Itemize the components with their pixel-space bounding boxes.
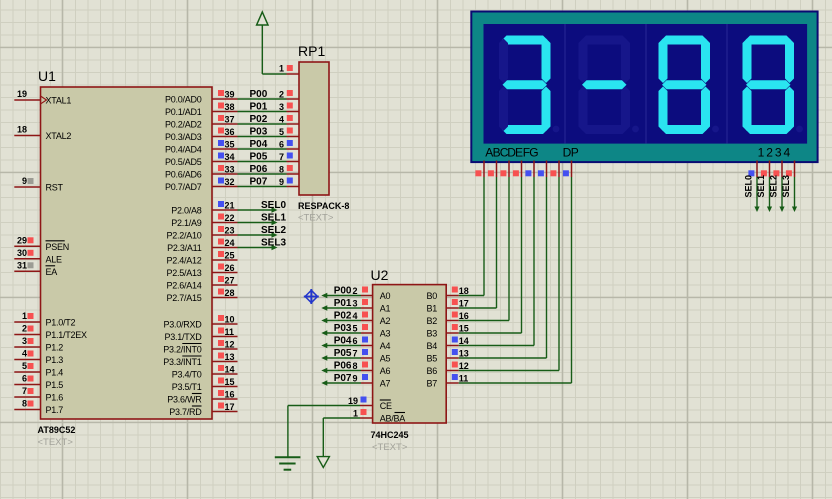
svg-text:4: 4	[783, 146, 790, 160]
svg-text:A6: A6	[380, 366, 391, 376]
svg-text:3: 3	[775, 146, 782, 160]
svg-text:A3: A3	[380, 329, 391, 339]
svg-text:35: 35	[225, 140, 235, 150]
svg-text:P04: P04	[250, 139, 268, 150]
svg-text:XTAL1: XTAL1	[46, 96, 72, 106]
svg-text:B2: B2	[426, 316, 437, 326]
svg-text:B0: B0	[426, 291, 437, 301]
svg-text:SEL3: SEL3	[781, 175, 791, 198]
svg-text:17: 17	[225, 402, 235, 412]
svg-text:P01: P01	[250, 102, 268, 113]
svg-text:30: 30	[17, 248, 27, 258]
svg-text:RP1: RP1	[298, 43, 325, 59]
svg-text:U1: U1	[38, 68, 56, 84]
svg-text:1: 1	[279, 64, 284, 74]
svg-text:14: 14	[459, 336, 469, 346]
svg-text:1: 1	[758, 146, 765, 160]
svg-text:P2.6/A14: P2.6/A14	[166, 281, 201, 291]
svg-text:P05: P05	[334, 348, 352, 359]
svg-text:P: P	[571, 146, 579, 160]
svg-text:EA: EA	[46, 267, 58, 277]
svg-text:2: 2	[352, 286, 357, 296]
svg-text:U2: U2	[371, 267, 389, 283]
svg-text:P0.6/AD6: P0.6/AD6	[165, 170, 202, 180]
svg-text:16: 16	[225, 390, 235, 400]
svg-text:4: 4	[279, 115, 284, 125]
svg-text:P1.2: P1.2	[46, 343, 64, 353]
svg-text:XTAL2: XTAL2	[46, 131, 72, 141]
svg-text:P01: P01	[334, 298, 352, 309]
svg-text:<TEXT>: <TEXT>	[38, 437, 74, 448]
svg-text:74HC245: 74HC245	[371, 430, 409, 440]
svg-text:AT89C52: AT89C52	[38, 425, 76, 435]
svg-text:P3.5/T1: P3.5/T1	[172, 382, 202, 392]
svg-text:31: 31	[17, 260, 27, 270]
svg-text:33: 33	[225, 165, 235, 175]
svg-text:SEL2: SEL2	[769, 175, 779, 198]
svg-text:15: 15	[225, 377, 235, 387]
svg-text:P3.2/INT0: P3.2/INT0	[163, 345, 202, 355]
svg-text:28: 28	[225, 288, 235, 298]
svg-text:P1.4: P1.4	[46, 368, 64, 378]
svg-text:P06: P06	[250, 164, 268, 175]
svg-text:7: 7	[279, 152, 284, 162]
svg-text:SEL0: SEL0	[744, 175, 754, 198]
svg-text:P0.3/AD3: P0.3/AD3	[165, 132, 202, 142]
svg-text:19: 19	[17, 89, 27, 99]
svg-text:G: G	[529, 146, 538, 160]
svg-text:SEL1: SEL1	[261, 213, 286, 224]
svg-text:P0.5/AD5: P0.5/AD5	[165, 157, 202, 167]
svg-text:P3.6/WR: P3.6/WR	[167, 395, 202, 405]
svg-text:P05: P05	[250, 152, 268, 163]
svg-text:1: 1	[22, 311, 27, 321]
svg-text:P2.5/A13: P2.5/A13	[166, 268, 201, 278]
svg-text:25: 25	[225, 251, 235, 261]
svg-text:B6: B6	[426, 366, 437, 376]
svg-text:3: 3	[279, 102, 284, 112]
svg-text:P1.3: P1.3	[46, 355, 64, 365]
svg-text:11: 11	[459, 374, 469, 384]
svg-text:P03: P03	[334, 323, 352, 334]
svg-text:B7: B7	[426, 379, 437, 389]
svg-text:P07: P07	[250, 177, 268, 188]
svg-text:11: 11	[225, 327, 235, 337]
svg-text:2: 2	[766, 146, 773, 160]
svg-text:SEL3: SEL3	[261, 238, 286, 249]
svg-text:A7: A7	[380, 379, 391, 389]
svg-text:B3: B3	[426, 329, 437, 339]
svg-text:21: 21	[225, 201, 235, 211]
svg-text:4: 4	[352, 311, 357, 321]
svg-text:16: 16	[459, 311, 469, 321]
svg-text:22: 22	[225, 213, 235, 223]
svg-text:P2.4/A12: P2.4/A12	[166, 256, 201, 266]
svg-text:P06: P06	[334, 361, 352, 372]
svg-text:23: 23	[225, 226, 235, 236]
svg-text:1: 1	[353, 409, 358, 419]
svg-text:P1.7: P1.7	[46, 405, 64, 415]
svg-text:SEL1: SEL1	[756, 175, 766, 198]
svg-text:P3.3/INT1: P3.3/INT1	[163, 357, 202, 367]
svg-text:9: 9	[352, 374, 357, 384]
svg-text:P2.2/A10: P2.2/A10	[166, 231, 201, 241]
svg-text:29: 29	[17, 235, 27, 245]
svg-text:P00: P00	[334, 286, 352, 297]
svg-text:8: 8	[352, 361, 357, 371]
svg-text:ALE: ALE	[46, 254, 63, 264]
svg-text:SEL2: SEL2	[261, 225, 286, 236]
svg-text:P1.1/T2EX: P1.1/T2EX	[46, 330, 88, 340]
svg-text:15: 15	[459, 324, 469, 334]
svg-text:<TEXT>: <TEXT>	[298, 213, 334, 224]
svg-text:5: 5	[22, 361, 27, 371]
svg-text:PSEN: PSEN	[46, 242, 70, 252]
svg-text:6: 6	[352, 336, 357, 346]
svg-text:P3.4/T0: P3.4/T0	[172, 370, 202, 380]
svg-text:P02: P02	[334, 311, 352, 322]
svg-text:P2.1/A9: P2.1/A9	[171, 218, 202, 228]
svg-text:5: 5	[279, 127, 284, 137]
svg-text:P3.0/RXD: P3.0/RXD	[163, 320, 202, 330]
svg-text:A2: A2	[380, 316, 391, 326]
svg-text:A0: A0	[380, 291, 391, 301]
svg-text:P04: P04	[334, 336, 352, 347]
svg-text:18: 18	[17, 125, 27, 135]
svg-text:P2.3/A11: P2.3/A11	[167, 243, 202, 253]
svg-text:A5: A5	[380, 354, 391, 364]
svg-text:14: 14	[225, 365, 235, 375]
svg-text:P07: P07	[334, 373, 352, 384]
svg-text:P3.1/TXD: P3.1/TXD	[164, 332, 202, 342]
svg-text:P2.0/A8: P2.0/A8	[171, 206, 202, 216]
svg-text:2: 2	[22, 324, 27, 334]
svg-text:18: 18	[459, 286, 469, 296]
svg-text:3: 3	[352, 299, 357, 309]
svg-text:A1: A1	[380, 304, 391, 314]
svg-text:CE: CE	[380, 401, 392, 411]
svg-text:P1.0/T2: P1.0/T2	[46, 318, 76, 328]
svg-text:8: 8	[279, 165, 284, 175]
svg-text:RST: RST	[46, 183, 64, 193]
svg-text:26: 26	[225, 263, 235, 273]
svg-text:5: 5	[352, 324, 357, 334]
svg-text:38: 38	[225, 102, 235, 112]
svg-text:P0.0/AD0: P0.0/AD0	[165, 95, 202, 105]
svg-text:12: 12	[459, 361, 469, 371]
svg-text:P02: P02	[250, 114, 268, 125]
svg-text:P2.7/A15: P2.7/A15	[166, 293, 201, 303]
svg-text:AB/BA: AB/BA	[380, 414, 406, 424]
svg-text:32: 32	[225, 177, 235, 187]
svg-text:P1.6: P1.6	[46, 393, 64, 403]
svg-text:P0.4/AD4: P0.4/AD4	[165, 145, 202, 155]
svg-text:P3.7/RD: P3.7/RD	[169, 407, 202, 417]
svg-text:2: 2	[279, 90, 284, 100]
svg-text:37: 37	[225, 115, 235, 125]
svg-text:3: 3	[22, 336, 27, 346]
svg-text:SEL0: SEL0	[261, 200, 286, 211]
svg-text:A4: A4	[380, 341, 391, 351]
svg-text:P03: P03	[250, 127, 268, 138]
svg-text:10: 10	[225, 315, 235, 325]
svg-text:4: 4	[22, 349, 27, 359]
svg-text:24: 24	[225, 238, 235, 248]
svg-text:9: 9	[279, 177, 284, 187]
svg-text:RESPACK-8: RESPACK-8	[298, 201, 349, 211]
svg-text:B5: B5	[426, 354, 437, 364]
svg-text:12: 12	[225, 340, 235, 350]
svg-text:P0.1/AD1: P0.1/AD1	[165, 107, 202, 117]
svg-text:6: 6	[22, 374, 27, 384]
svg-text:P0.7/AD7: P0.7/AD7	[165, 182, 202, 192]
svg-text:17: 17	[459, 299, 469, 309]
svg-text:<TEXT>: <TEXT>	[372, 442, 408, 453]
svg-text:P1.5: P1.5	[46, 380, 64, 390]
svg-text:P00: P00	[250, 89, 268, 100]
svg-text:B1: B1	[426, 304, 437, 314]
svg-text:6: 6	[279, 140, 284, 150]
svg-text:7: 7	[352, 349, 357, 359]
svg-text:8: 8	[22, 399, 27, 409]
svg-text:9: 9	[22, 176, 27, 186]
svg-text:7: 7	[22, 386, 27, 396]
svg-text:19: 19	[348, 396, 358, 406]
svg-text:27: 27	[225, 276, 235, 286]
svg-text:P0.2/AD2: P0.2/AD2	[165, 120, 202, 130]
svg-text:13: 13	[459, 349, 469, 359]
svg-text:36: 36	[225, 127, 235, 137]
svg-text:B4: B4	[426, 341, 437, 351]
svg-text:39: 39	[225, 90, 235, 100]
svg-text:34: 34	[225, 152, 235, 162]
svg-text:13: 13	[225, 352, 235, 362]
